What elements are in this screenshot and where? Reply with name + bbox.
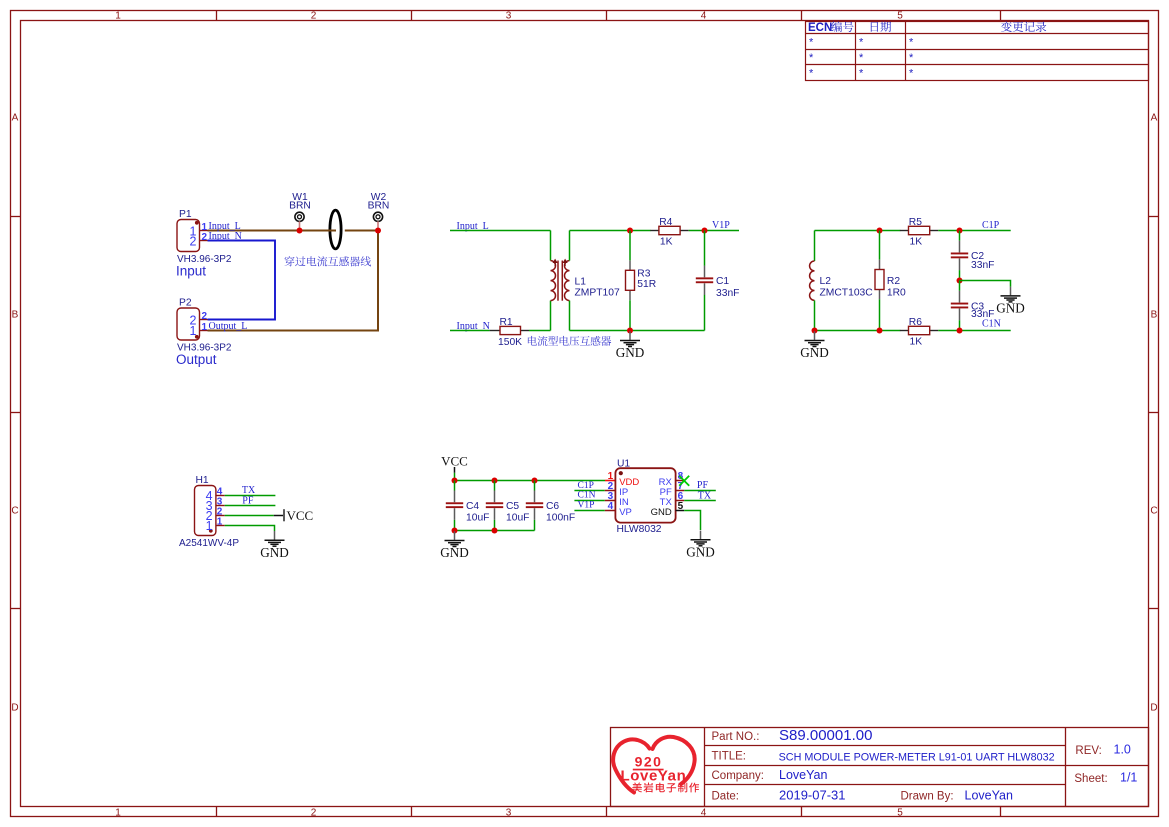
svg-text:51R: 51R: [637, 279, 656, 290]
svg-text:GND: GND: [440, 545, 469, 560]
svg-text:100nF: 100nF: [546, 512, 575, 523]
svg-text:C6: C6: [546, 501, 559, 512]
svg-text:2: 2: [190, 234, 197, 248]
svg-text:A2541WV-4P: A2541WV-4P: [179, 538, 239, 549]
svg-text:P2: P2: [179, 298, 192, 309]
svg-text:Output_L: Output_L: [209, 321, 248, 332]
svg-text:LoveYan: LoveYan: [965, 788, 1013, 802]
svg-text:TITLE:: TITLE:: [712, 751, 747, 763]
svg-text:L2: L2: [820, 276, 832, 287]
svg-text:*: *: [809, 52, 814, 64]
svg-text:1.0: 1.0: [1114, 742, 1131, 756]
svg-text:Output: Output: [176, 352, 217, 367]
svg-text:33nF: 33nF: [971, 260, 994, 271]
svg-text:5: 5: [678, 501, 684, 512]
svg-text:V1P: V1P: [578, 501, 595, 511]
svg-text:Input_N: Input_N: [209, 231, 242, 242]
svg-text:1R0: 1R0: [887, 288, 906, 299]
svg-text:150K: 150K: [498, 337, 522, 348]
svg-text:4: 4: [701, 807, 707, 818]
svg-text:LoveYan: LoveYan: [621, 768, 687, 785]
svg-text:2: 2: [311, 10, 317, 21]
svg-text:ZMCT103C: ZMCT103C: [820, 288, 874, 299]
svg-text:LoveYan: LoveYan: [779, 768, 827, 782]
svg-text:*: *: [809, 37, 814, 49]
svg-text:C: C: [11, 506, 18, 517]
svg-text:R4: R4: [659, 217, 672, 228]
svg-text:Sheet:: Sheet:: [1074, 773, 1107, 785]
svg-text:BRN: BRN: [368, 201, 390, 212]
svg-text:C1P: C1P: [578, 481, 594, 491]
svg-text:R5: R5: [909, 217, 922, 228]
svg-text:1: 1: [115, 10, 121, 21]
svg-text:4: 4: [608, 501, 614, 512]
svg-text:REV:: REV:: [1075, 745, 1101, 757]
svg-text:*: *: [859, 37, 864, 49]
svg-text:2: 2: [202, 311, 208, 322]
svg-text:*: *: [809, 68, 814, 80]
svg-text:R3: R3: [637, 268, 650, 279]
svg-text:1: 1: [217, 516, 223, 527]
svg-text:R2: R2: [887, 276, 900, 287]
svg-text:C5: C5: [506, 501, 519, 512]
svg-text:1K: 1K: [660, 237, 673, 248]
svg-text:VCC: VCC: [441, 453, 468, 468]
svg-text:GND: GND: [616, 345, 645, 360]
svg-text:GND: GND: [996, 301, 1025, 316]
svg-text:1/1: 1/1: [1120, 771, 1137, 785]
svg-text:1: 1: [202, 322, 208, 333]
svg-text:SCH MODULE POWER-METER L91-01: SCH MODULE POWER-METER L91-01 UART HLW80…: [779, 751, 1055, 763]
svg-text:1: 1: [190, 324, 197, 338]
svg-text:1K: 1K: [910, 337, 923, 348]
svg-text:BRN: BRN: [289, 201, 311, 212]
svg-text:Company:: Company:: [712, 770, 764, 782]
svg-text:Part NO.:: Part NO.:: [712, 731, 760, 743]
svg-text:B: B: [12, 310, 19, 321]
svg-text:2: 2: [202, 232, 208, 243]
svg-text:Date:: Date:: [712, 790, 740, 802]
svg-text:2019-07-31: 2019-07-31: [779, 787, 846, 802]
svg-text:*: *: [859, 68, 864, 80]
svg-text:*: *: [909, 52, 914, 64]
svg-text:1: 1: [206, 519, 213, 533]
svg-text:VP: VP: [619, 507, 632, 518]
svg-text:R1: R1: [500, 317, 513, 328]
svg-text:VCC: VCC: [287, 508, 314, 523]
svg-text:GND: GND: [686, 545, 715, 560]
svg-text:Drawn By:: Drawn By:: [901, 790, 954, 802]
svg-text:P1: P1: [179, 209, 192, 220]
svg-text:ECN: ECN: [808, 22, 832, 34]
svg-text:5: 5: [897, 10, 903, 21]
svg-text:GND: GND: [651, 507, 672, 518]
svg-text:H1: H1: [196, 475, 209, 486]
svg-text:L1: L1: [575, 277, 587, 288]
svg-text:V1P: V1P: [712, 220, 730, 231]
svg-text:2: 2: [311, 807, 317, 818]
svg-text:C: C: [1150, 506, 1157, 517]
svg-text:C4: C4: [466, 501, 479, 512]
svg-text:*: *: [909, 68, 914, 80]
svg-text:A: A: [1151, 113, 1158, 124]
svg-text:R6: R6: [909, 317, 922, 328]
svg-text:S89.00001.00: S89.00001.00: [779, 727, 872, 744]
svg-text:HLW8032: HLW8032: [617, 524, 662, 535]
svg-text:4: 4: [701, 10, 707, 21]
svg-text:1K: 1K: [910, 237, 923, 248]
svg-text:C1: C1: [716, 276, 729, 287]
svg-text:GND: GND: [260, 545, 289, 560]
svg-text:PF: PF: [242, 495, 254, 506]
svg-text:33nF: 33nF: [716, 288, 739, 299]
svg-text:10uF: 10uF: [506, 512, 529, 523]
svg-text:10uF: 10uF: [466, 512, 489, 523]
svg-text:GND: GND: [800, 345, 829, 360]
svg-text:D: D: [1150, 703, 1157, 714]
svg-text:1: 1: [115, 807, 121, 818]
svg-text:*: *: [909, 37, 914, 49]
svg-text:A: A: [12, 113, 19, 124]
svg-text:C1N: C1N: [578, 491, 596, 501]
svg-text:C1P: C1P: [982, 220, 1000, 231]
svg-text:D: D: [11, 703, 18, 714]
svg-text:3: 3: [506, 807, 512, 818]
svg-text:Input: Input: [176, 264, 206, 279]
svg-text:*: *: [859, 52, 864, 64]
svg-text:C1N: C1N: [982, 319, 1001, 330]
svg-text:B: B: [1151, 310, 1158, 321]
svg-text:3: 3: [506, 10, 512, 21]
svg-text:5: 5: [897, 807, 903, 818]
svg-text:TX: TX: [698, 490, 712, 501]
svg-text:ZMPT107: ZMPT107: [575, 288, 620, 299]
